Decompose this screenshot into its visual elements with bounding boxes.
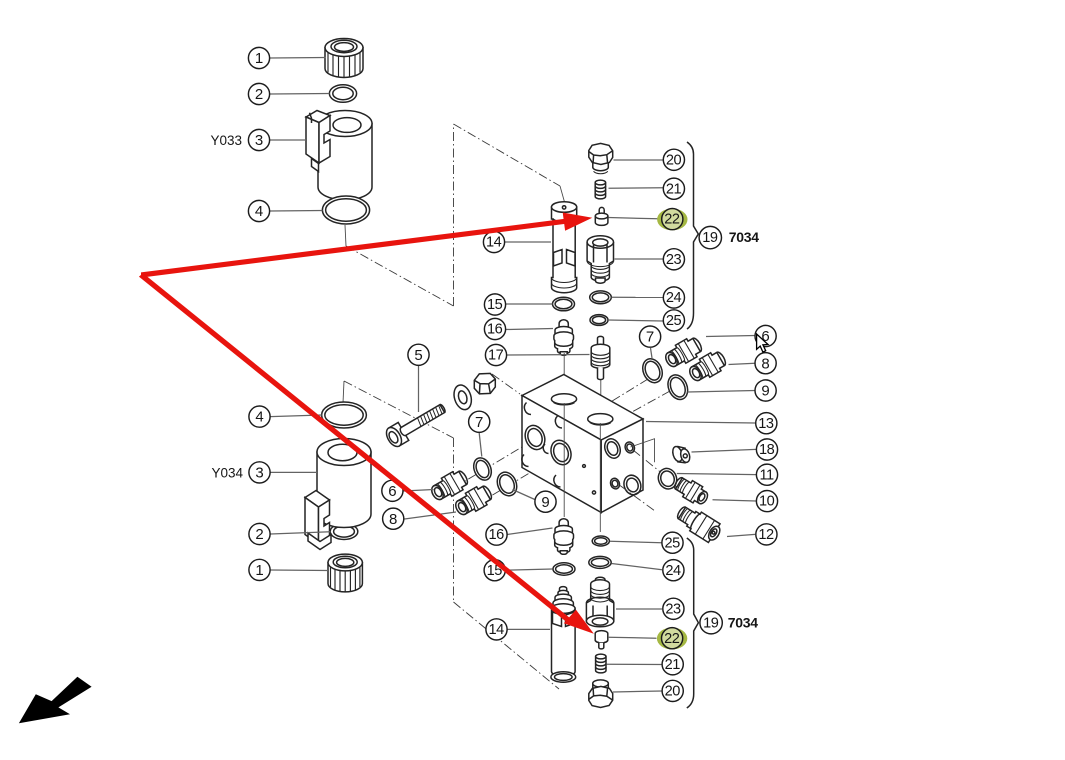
hex nut for bolt 5 (474, 373, 495, 394)
callout 22 bottom highlighted (657, 628, 687, 650)
callout 20 bottom (662, 680, 683, 701)
callout 10 (756, 491, 777, 512)
callout 2 bottom leader (271, 532, 331, 534)
callout 25 top (663, 310, 684, 331)
callout 21 bottom (662, 654, 683, 675)
callout 2 bottom (249, 523, 270, 544)
cartridge valve part 23 top (587, 236, 613, 283)
callout 3 bottom (249, 462, 270, 483)
svg-text:10: 10 (759, 494, 775, 510)
fitting part 10 (672, 474, 711, 508)
fitting part 8 right (686, 348, 729, 385)
fitting part 6 right (662, 334, 705, 371)
svg-text:24: 24 (666, 290, 682, 306)
callout 15 top leader (506, 303, 553, 305)
red arrow to part 22 top (141, 213, 592, 278)
manifold block part 13 (522, 375, 644, 513)
callout 21 bottom leader (607, 663, 663, 665)
callout 23 top (663, 249, 684, 270)
callout 20 top leader (614, 159, 664, 161)
callout 19 bottom (700, 612, 722, 634)
callout 10 leader (713, 500, 757, 501)
callout 8 left leader (405, 512, 457, 519)
svg-text:7034: 7034 (728, 614, 758, 630)
svg-text:24: 24 (665, 563, 681, 579)
washer under nut (451, 383, 474, 412)
leader polyline small port to part 18 (631, 439, 655, 463)
svg-text:20: 20 (666, 152, 682, 168)
callout 16 bottom leader (507, 528, 553, 535)
callout 1 (248, 47, 269, 68)
callout 11 (756, 464, 777, 485)
svg-text:20: 20 (665, 684, 681, 700)
callout 7 right leader (651, 348, 653, 358)
bracket 19 top (687, 142, 698, 329)
callout 12 leader (727, 534, 755, 536)
callout 13 leader (646, 422, 755, 424)
callout 19 top (699, 226, 721, 248)
callout 8 left (383, 508, 404, 529)
o-ring part 2 top (329, 85, 356, 103)
svg-text:16: 16 (487, 322, 503, 338)
dash-dot axis port to o-ring 11 (633, 450, 677, 487)
callout 6 left (382, 480, 403, 501)
callout 18 leader (692, 449, 757, 452)
o-ring part 24 bottom (589, 556, 611, 568)
callout 24 bottom (663, 560, 684, 581)
callout 3 bottom leader (271, 471, 318, 473)
svg-text:25: 25 (666, 313, 682, 329)
callout 17 (485, 344, 506, 365)
valve cartridge part 14 top (552, 202, 577, 293)
dash-dot axis lower port to fitting 12 (620, 486, 655, 512)
callout 24 top leader (612, 296, 664, 298)
o-ring 7 left (470, 455, 494, 483)
callout 2 leader (270, 93, 330, 96)
shuttle part 17 (591, 336, 610, 379)
fitting part 8 left (452, 482, 495, 519)
o-ring part 25 top (590, 315, 608, 326)
svg-text:7: 7 (475, 414, 483, 431)
fitting part 12 (674, 502, 724, 545)
callout 24 bottom leader (612, 564, 663, 570)
callout 22 top leader (609, 218, 658, 219)
svg-text:1: 1 (255, 50, 263, 67)
callout 16 bottom (486, 524, 507, 545)
svg-text:11: 11 (760, 467, 775, 483)
callout 13 (756, 413, 777, 434)
svg-text:17: 17 (488, 348, 504, 364)
svg-text:12: 12 (758, 527, 774, 543)
callout 1 leader (270, 57, 326, 60)
svg-text:22: 22 (664, 212, 680, 228)
svg-text:15: 15 (487, 297, 503, 313)
callout 7 left leader (479, 433, 482, 457)
dash-dot axis fitting 8 left into block (464, 456, 558, 512)
svg-text:1: 1 (255, 562, 263, 579)
callout 20 bottom leader (613, 691, 662, 692)
spring part 21 bottom (596, 654, 606, 673)
svg-text:14: 14 (486, 235, 502, 251)
svg-text:18: 18 (759, 442, 775, 458)
callout 6 right (755, 325, 776, 346)
callout 5 leader (418, 366, 420, 412)
callout 17 leader (507, 354, 590, 357)
o-ring part 4 bottom (322, 402, 367, 428)
dash-dot axis o-ring 9 right to block top (603, 391, 670, 428)
callout 22 bottom leader (608, 637, 657, 638)
callout 12 (756, 524, 777, 545)
callout 1 bottom leader (271, 569, 329, 572)
callout 25 bottom leader (610, 541, 662, 542)
svg-text:6: 6 (388, 483, 396, 500)
valve cartridge part 14 bottom (551, 587, 576, 683)
callout 21 top (663, 178, 684, 199)
hex plug part 20 top (589, 143, 613, 173)
callout 14 top (483, 231, 504, 252)
svg-text:3: 3 (255, 132, 263, 149)
callout 4 bottom (249, 406, 270, 427)
knob nut part 1 top (325, 39, 363, 78)
callout 2 (248, 83, 269, 104)
callout 3 leader (270, 139, 306, 141)
fitting part 6 left (428, 467, 471, 504)
callout 23 top leader (615, 258, 664, 260)
o-ring 9 right (664, 372, 691, 403)
svg-text:19: 19 (702, 230, 718, 246)
callout 25 bottom (662, 532, 683, 553)
axis line part 16 top to block (563, 353, 565, 398)
o-ring part 4 top (322, 196, 369, 224)
bracket 19 bottom (687, 538, 699, 708)
callout 18 (756, 439, 777, 460)
callout 16 top leader (506, 329, 553, 330)
callout 23 bottom (663, 598, 684, 619)
callout 21 top leader (609, 187, 664, 190)
svg-text:8: 8 (761, 355, 769, 372)
callout 9 right (755, 380, 776, 401)
svg-text:9: 9 (761, 383, 769, 400)
insert part 16 top (554, 320, 574, 356)
axis line block top port A down (563, 403, 565, 517)
callout 9 right leader (688, 391, 756, 393)
callout 23 bottom leader (616, 608, 662, 610)
o-ring part 2 bottom (330, 524, 358, 540)
poppet part 22 bottom (595, 631, 608, 649)
svg-text:3: 3 (255, 465, 263, 482)
o-ring part 15 top (553, 297, 575, 311)
callout 8 right (755, 353, 776, 374)
callout 4 bottom leader (271, 415, 322, 417)
o-ring part 15 bottom (553, 563, 575, 575)
callout 4 (248, 200, 269, 221)
svg-text:Y034: Y034 (211, 466, 243, 481)
svg-text:7034: 7034 (729, 229, 759, 245)
o-ring part 24 top (590, 291, 612, 304)
cartridge valve part 23 bottom (586, 577, 613, 626)
o-ring 7 right (639, 356, 666, 386)
svg-text:Y033: Y033 (210, 133, 242, 148)
dash-dot axis o-ring 7 right to block top (604, 379, 648, 406)
solenoid Y033 part 3 (306, 111, 372, 201)
svg-text:25: 25 (664, 535, 680, 551)
callout 15 top (484, 294, 505, 315)
svg-text:4: 4 (255, 203, 263, 220)
dash-dot axis group Y033 to valve 14a (345, 124, 565, 306)
o-ring part 25 bottom (592, 536, 609, 546)
callout 4 leader (270, 210, 323, 213)
callout 15 bottom (484, 560, 505, 581)
axis line block top port B down (599, 423, 601, 532)
o-ring 9 left (494, 469, 520, 499)
spring part 21 top (595, 180, 605, 199)
svg-text:16: 16 (488, 527, 504, 543)
mouse cursor (757, 334, 768, 352)
svg-text:13: 13 (758, 416, 774, 432)
callout 14 bottom leader (508, 628, 551, 630)
red arrow to part 22 bottom (139, 273, 594, 633)
svg-text:2: 2 (255, 526, 263, 543)
svg-text:19: 19 (703, 615, 719, 631)
socket head bolt part 5 (383, 399, 449, 449)
dash-dot axis fitting 6 left into block (440, 441, 532, 496)
svg-text:2: 2 (255, 86, 263, 103)
callout 14 top leader (505, 241, 551, 243)
svg-text:14: 14 (488, 622, 504, 638)
callout 6 right leader (706, 336, 755, 337)
knob nut part 1 bottom (328, 554, 362, 592)
svg-text:9: 9 (541, 494, 549, 511)
callout 1 bottom (249, 559, 270, 580)
svg-text:23: 23 (665, 601, 681, 617)
solenoid Y034 part 3 bottom (305, 439, 371, 550)
poppet part 22 top (595, 207, 608, 225)
callout 16 top (484, 318, 505, 339)
callout 3 (248, 129, 269, 150)
dash-dot axis group Y034 to valve 14b (343, 381, 559, 689)
hex plug part 20 bottom (589, 680, 613, 708)
callout 15 bottom leader (506, 569, 553, 570)
svg-text:7: 7 (646, 329, 654, 346)
o-ring 11 (655, 466, 679, 492)
callout 14 bottom (486, 619, 507, 640)
callout 25 top leader (608, 320, 663, 321)
callout 6 left leader (404, 490, 434, 492)
svg-text:21: 21 (665, 657, 681, 673)
callout 8 right leader (729, 363, 756, 364)
callout 9 left (535, 491, 556, 512)
plug screw part 18 (671, 445, 691, 463)
callout 11 leader (677, 474, 756, 475)
svg-text:5: 5 (414, 347, 422, 364)
insert part 16 bottom (554, 519, 574, 555)
svg-text:22: 22 (664, 631, 680, 647)
callout 20 top (663, 149, 684, 170)
callout 7 right (640, 326, 661, 347)
svg-text:8: 8 (389, 511, 397, 528)
callout 5 (408, 344, 429, 365)
svg-text:23: 23 (666, 252, 682, 268)
svg-text:21: 21 (666, 181, 682, 197)
axis line part 17 to block (600, 380, 602, 414)
black direction arrow (19, 677, 92, 723)
callout 9 left leader (513, 490, 535, 500)
svg-text:4: 4 (255, 409, 263, 426)
callout 24 top (663, 287, 684, 308)
dash-dot axis bolt 5 into block (492, 374, 520, 394)
callout 22 top highlighted (657, 209, 687, 231)
callout 7 left (469, 411, 490, 432)
